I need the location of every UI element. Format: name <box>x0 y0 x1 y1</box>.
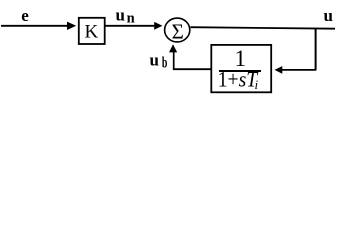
label u_n <box>116 5 135 26</box>
wire vertical tap <box>315 28 317 70</box>
arrowhead into summer <box>154 22 162 30</box>
svg-text:u: u <box>116 5 125 24</box>
svg-text:i: i <box>255 77 259 92</box>
svg-text:K: K <box>85 21 99 42</box>
wire vertical up into summer <box>173 52 175 70</box>
label u_b <box>150 50 168 71</box>
arrowhead into summer bottom <box>169 44 177 52</box>
fraction bar <box>219 70 261 72</box>
wire feedback left <box>173 68 211 70</box>
arrowhead into K <box>67 22 76 30</box>
gain block K <box>79 18 105 44</box>
svg-text:1+sT: 1+sT <box>218 67 259 92</box>
svg-text:Σ: Σ <box>172 19 184 43</box>
summing junction U1 <box>165 18 190 43</box>
svg-text:u: u <box>324 6 333 25</box>
svg-text:b: b <box>162 54 168 71</box>
feedback block 1/(1+sTi) <box>211 45 271 92</box>
wire feedback right <box>282 69 316 71</box>
svg-text:e: e <box>21 6 29 25</box>
wire summer output <box>191 27 336 29</box>
arrowhead into feedback block <box>275 66 283 74</box>
wire e input <box>1 25 68 27</box>
svg-text:n: n <box>127 10 135 26</box>
svg-text:u: u <box>150 50 159 69</box>
wire K to summer <box>105 25 155 27</box>
